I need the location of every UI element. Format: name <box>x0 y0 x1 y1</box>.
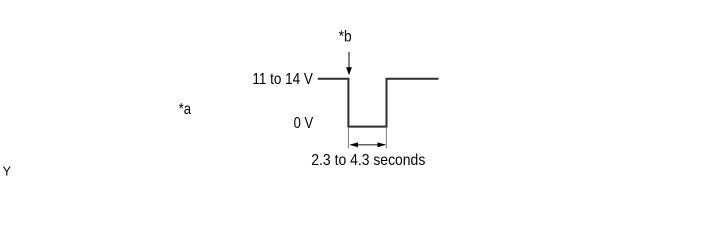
svg-text:11 to 14 V: 11 to 14 V <box>252 71 313 88</box>
extension line right <box>385 128 387 149</box>
extension line left <box>347 128 349 149</box>
svg-text:0 V: 0 V <box>294 115 314 132</box>
arrow from *b to waveform high level <box>346 52 352 75</box>
svg-text:*b: *b <box>339 28 352 45</box>
svg-text:Y: Y <box>3 165 12 178</box>
waveform pulse (high-low-high) <box>318 79 439 127</box>
svg-text:2.3 to 4.3 seconds: 2.3 to 4.3 seconds <box>311 152 425 169</box>
svg-text:*a: *a <box>179 101 191 118</box>
dimension double arrow 2.3 to 4.3 seconds <box>349 142 386 147</box>
